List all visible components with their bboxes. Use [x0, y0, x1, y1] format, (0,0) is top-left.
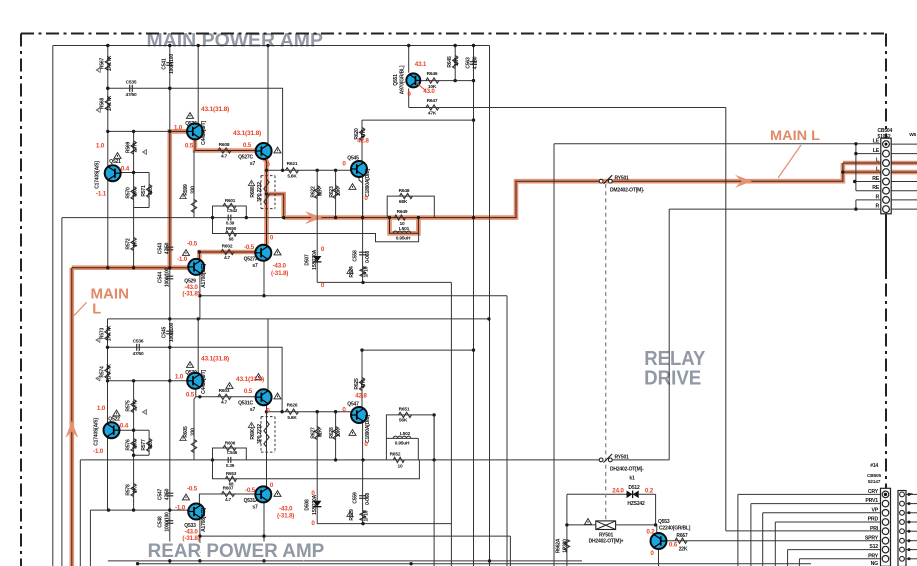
svg-text:DM2402-OT[M]-: DM2402-OT[M]- — [610, 188, 645, 194]
svg-text:R569: R569 — [125, 142, 131, 154]
svg-text:VP: VP — [871, 507, 878, 513]
svg-text:1P330: 1P330 — [563, 539, 569, 553]
Q521 base wire — [121, 172, 149, 174]
svg-text:C558: C558 — [353, 250, 359, 262]
svg-text:1P10: 1P10 — [363, 510, 369, 521]
protect vertical x=726 — [725, 108, 727, 531]
svg-text:R622: R622 — [310, 186, 316, 198]
rear signal line y=460 — [80, 459, 669, 461]
svg-text:-43.0: -43.0 — [279, 506, 293, 513]
svg-text:5.6K: 5.6K — [287, 415, 297, 421]
resistor R574 — [105, 366, 110, 379]
resistor R578 — [131, 484, 136, 497]
svg-text:22K: 22K — [679, 547, 688, 553]
connector CB505 pins — [882, 491, 889, 498]
left rail 1 — [52, 46, 54, 566]
transistor Q529 — [188, 259, 204, 275]
CB504 right stubs — [891, 144, 917, 209]
transistor Q521 — [105, 165, 121, 181]
svg-text:C548: C548 — [157, 516, 163, 528]
bus y=282 — [317, 281, 451, 283]
svg-text:D508: D508 — [305, 499, 311, 511]
svg-text:2.7K: 2.7K — [133, 142, 139, 152]
resistor R648 — [400, 194, 413, 199]
transistor Q531A — [255, 486, 271, 502]
vertical wire x=108 rear — [107, 319, 109, 510]
diode D512 HZS242 — [627, 491, 633, 499]
svg-text:-0.4: -0.4 — [118, 423, 129, 430]
svg-text:1K: 1K — [133, 486, 139, 493]
svg-text:-0.5: -0.5 — [187, 486, 198, 493]
highlighted MAIN L trace (orange bands) — [72, 131, 189, 566]
transistor Q522 — [104, 422, 120, 438]
svg-text:R649: R649 — [397, 209, 408, 215]
svg-text:R628: R628 — [329, 427, 335, 439]
R647 loop top R648 — [387, 196, 434, 218]
Q533 base path — [199, 494, 255, 503]
svg-text:Q531A: Q531A — [244, 498, 259, 504]
svg-text:R602: R602 — [222, 244, 233, 250]
Q527A emitter wire — [263, 261, 265, 296]
svg-text:R651: R651 — [399, 407, 410, 413]
svg-text:0.39: 0.39 — [226, 463, 235, 468]
C536 row — [108, 347, 283, 411]
left rail 2 — [61, 218, 63, 566]
page border dash-dot top — [21, 33, 886, 35]
CB505 PRD wire — [775, 522, 880, 566]
svg-text:D512: D512 — [628, 485, 640, 491]
capacitor C543 — [166, 246, 173, 248]
svg-text:1000/100: 1000/100 — [165, 267, 171, 287]
svg-text:C1890A[D/E]: C1890A[D/E] — [365, 415, 371, 443]
vertical wire x=170 — [169, 46, 171, 564]
svg-text:-0.5: -0.5 — [244, 244, 255, 251]
relay actuation dashed line — [605, 184, 607, 521]
svg-text:R575: R575 — [125, 400, 131, 412]
Q545 emitter chain — [359, 177, 363, 218]
resistor R650 — [226, 231, 237, 236]
resistor R571 — [147, 185, 152, 198]
svg-text:-1.0: -1.0 — [177, 256, 188, 263]
svg-text:C559: C559 — [353, 492, 359, 504]
svg-text:2.7K: 2.7K — [133, 401, 139, 411]
capacitor C536 — [136, 344, 138, 351]
svg-text:RY501: RY501 — [615, 454, 630, 460]
R646 row wire — [421, 80, 474, 82]
svg-text:HZS242: HZS242 — [627, 501, 645, 507]
Q527C collector wire — [267, 46, 269, 144]
Q551 leads — [408, 46, 410, 108]
connector CB504 pins — [883, 141, 890, 148]
svg-text:C542: C542 — [227, 208, 238, 213]
transistor Q551 — [406, 73, 420, 87]
Q553 collector stub — [656, 525, 658, 533]
transistor Q530 — [187, 373, 203, 389]
svg-text:-1.1: -1.1 — [96, 191, 107, 198]
svg-text:R605: R605 — [183, 426, 189, 438]
svg-text:PRV1: PRV1 — [865, 498, 878, 504]
svg-text:5.6K: 5.6K — [287, 174, 297, 180]
left rail x=80 — [79, 460, 81, 566]
svg-text:A970[GR/BL]: A970[GR/BL] — [399, 65, 405, 94]
resistor R569 — [131, 141, 136, 154]
svg-text:R576: R576 — [125, 439, 131, 451]
bottom bus 2 — [138, 563, 811, 565]
relay coil row — [567, 524, 656, 526]
svg-text:A1708[S/T]: A1708[S/T] — [201, 264, 207, 288]
svg-text:24.0: 24.0 — [612, 488, 624, 495]
wire C535 row — [108, 88, 283, 170]
rail x=434 — [433, 415, 435, 566]
orange flow arrow near relay — [735, 175, 752, 188]
resistor R603 — [218, 394, 231, 399]
svg-text:0.5: 0.5 — [185, 143, 194, 150]
CB504 R pins wires — [669, 200, 881, 209]
inductor L501 — [393, 231, 411, 233]
svg-text:(-31.8): (-31.8) — [277, 513, 294, 520]
connector CB505 mate body — [898, 491, 906, 566]
CB505 PRI wire — [726, 530, 881, 532]
CB505 PRV1 wire — [751, 504, 881, 566]
Q547 collector chain — [361, 350, 363, 407]
resistor R653 — [226, 476, 237, 481]
svg-text:42.8: 42.8 — [355, 393, 367, 400]
svg-text:1.0: 1.0 — [175, 374, 184, 381]
Q522 base wire — [120, 429, 150, 431]
svg-text:s7: s7 — [250, 161, 256, 167]
transistor Q533 — [188, 504, 204, 520]
resistor R568 — [105, 97, 110, 110]
C558 R624 vertical — [362, 177, 364, 282]
bus y=523.6 — [317, 523, 451, 525]
svg-text:s7: s7 — [250, 407, 256, 413]
R667 base line to SPRY — [667, 540, 882, 542]
svg-text:C544: C544 — [157, 272, 163, 284]
svg-text:R667: R667 — [676, 533, 688, 539]
svg-text:SPRY: SPRY — [865, 535, 879, 541]
svg-text:C1740S[A/S]: C1740S[A/S] — [93, 418, 99, 446]
resistor R690 (fusible) — [261, 417, 275, 453]
svg-text:Q526: Q526 — [185, 121, 197, 127]
svg-text:1SS270A: 1SS270A — [312, 249, 318, 270]
Q531C collector wire — [267, 319, 269, 389]
svg-text:10K: 10K — [336, 187, 342, 196]
diode D507 — [313, 256, 321, 262]
svg-text:10: 10 — [398, 463, 403, 469]
svg-text:820: 820 — [148, 187, 154, 195]
R576 R577 block wires — [134, 381, 150, 510]
rail x=507 — [506, 296, 508, 566]
svg-text:W5: W5 — [909, 132, 916, 138]
svg-text:1.0: 1.0 — [174, 125, 183, 132]
svg-text:C2240[GR/BL]: C2240[GR/BL] — [659, 526, 691, 532]
resistor R607 — [222, 491, 235, 496]
svg-text:43.1(31.8): 43.1(31.8) — [201, 356, 229, 363]
svg-text:4.7: 4.7 — [221, 400, 228, 406]
svg-text:Q527C: Q527C — [238, 155, 253, 161]
relay coil top wire — [567, 493, 656, 495]
svg-text:s7: s7 — [252, 263, 258, 269]
svg-text:10K: 10K — [428, 84, 437, 90]
Q533 emitter wire — [199, 520, 201, 561]
relay coil left vertical — [566, 494, 568, 566]
svg-text:MAIN L: MAIN L — [770, 127, 820, 143]
svg-text:0.5: 0.5 — [244, 388, 253, 395]
transistor Q547 — [351, 407, 367, 423]
R651 loop outline — [386, 415, 434, 460]
svg-text:3P0.2232: 3P0.2232 — [257, 424, 263, 444]
svg-text:PRD: PRD — [868, 517, 879, 523]
resistor R608 — [218, 148, 231, 153]
main top supply rail — [53, 45, 490, 47]
resistor R626 — [286, 409, 299, 414]
svg-text:DRIVE: DRIVE — [644, 368, 701, 390]
svg-text:MAIN: MAIN — [91, 287, 130, 303]
svg-text:-1.0: -1.0 — [175, 505, 186, 512]
main bottom bus y=218 — [62, 217, 284, 219]
svg-text:1SS270A: 1SS270A — [312, 494, 318, 515]
svg-text:R572: R572 — [125, 238, 131, 250]
svg-text:0.2: 0.2 — [646, 529, 655, 536]
resistor R652 — [393, 457, 404, 462]
R647 protect line — [409, 107, 726, 109]
svg-text:R625: R625 — [354, 378, 360, 390]
svg-text:R645: R645 — [447, 56, 453, 68]
resistor R651 — [399, 412, 412, 417]
svg-text:C541: C541 — [162, 58, 168, 70]
resistor R667 — [675, 538, 687, 543]
svg-text:4.7/50: 4.7/50 — [473, 56, 479, 69]
Q531C emitter vertical — [266, 405, 268, 486]
svg-text:LE: LE — [873, 148, 880, 154]
svg-text:3P0.2232: 3P0.2232 — [257, 182, 263, 202]
resistor R570 — [131, 187, 136, 200]
svg-text:82K: 82K — [318, 428, 324, 437]
Q530 base row — [108, 380, 188, 382]
svg-text:k1: k1 — [629, 476, 635, 482]
svg-text:4.7: 4.7 — [224, 255, 231, 261]
svg-text:10K: 10K — [336, 428, 342, 437]
svg-text:Q531C: Q531C — [238, 401, 253, 407]
svg-text:56K: 56K — [399, 418, 408, 424]
svg-text:**: ** — [909, 492, 913, 497]
orange flow arrow on main trace — [305, 211, 322, 224]
Q531A emitter wire — [263, 503, 265, 561]
svg-text:43.1(31.8): 43.1(31.8) — [233, 130, 261, 137]
resistor R629 — [360, 511, 365, 521]
svg-text:R: R — [875, 204, 879, 210]
svg-text:43.1: 43.1 — [415, 61, 427, 68]
transistor Q545 — [351, 161, 367, 177]
x=90 rail — [89, 510, 91, 566]
resistor R575 — [131, 400, 136, 413]
resistor R605 — [191, 440, 196, 453]
svg-text:51052: 51052 — [878, 134, 891, 140]
svg-text:L501: L501 — [399, 226, 410, 232]
resistor R606 / capacitor C546 block — [213, 448, 247, 460]
capacitor C544 — [166, 275, 173, 277]
relay coil RY501 — [596, 521, 616, 530]
svg-text:-43.0: -43.0 — [273, 263, 287, 270]
svg-text:(-31.8): (-31.8) — [182, 291, 199, 298]
svg-text:1P4.7K: 1P4.7K — [107, 55, 113, 71]
relay coil right vertical — [655, 494, 657, 525]
svg-text:R623: R623 — [329, 186, 335, 198]
transistor Q553 — [651, 533, 667, 549]
capacitor C563 — [470, 61, 477, 63]
svg-text:68: 68 — [229, 237, 234, 242]
C559 R629 vertical — [362, 423, 364, 524]
svg-text:47K: 47K — [361, 379, 367, 388]
resistor R567 — [105, 57, 110, 70]
svg-text:NG: NG — [871, 561, 879, 566]
svg-text:43.1(31.8): 43.1(31.8) — [201, 106, 229, 113]
resistor R576 — [131, 439, 136, 452]
svg-text:C535: C535 — [126, 80, 137, 86]
svg-text:C4488[S/T]: C4488[S/T] — [201, 121, 207, 145]
svg-text:PRI: PRI — [870, 526, 879, 532]
svg-text:47/50: 47/50 — [132, 351, 144, 357]
diode D508 — [313, 501, 321, 507]
svg-text:(-31.8): (-31.8) — [271, 270, 288, 277]
svg-text:0-068: 0-068 — [365, 493, 371, 505]
wire junction dots — [106, 44, 858, 566]
svg-text:43.1(31.8): 43.1(31.8) — [236, 376, 264, 383]
transistor Q527C — [256, 143, 272, 159]
svg-text:RY501: RY501 — [615, 176, 630, 182]
capacitor C541 — [166, 62, 173, 64]
svg-text:1P10: 1P10 — [363, 266, 369, 277]
vertical wire x=108 main — [107, 46, 109, 268]
Q545 collector chain — [361, 120, 363, 161]
svg-text:1.0: 1.0 — [96, 143, 105, 150]
resistor R646 — [426, 78, 439, 83]
R627 R628 verticals — [317, 412, 335, 524]
Q553 emitter wire — [658, 549, 660, 566]
x=510 stub — [509, 536, 511, 566]
svg-text:R570: R570 — [125, 187, 131, 199]
svg-text:C543: C543 — [157, 243, 163, 255]
transistor Q526 — [187, 123, 203, 139]
relay contact RY501 (main) — [599, 179, 603, 183]
svg-text:C545: C545 — [162, 327, 168, 339]
svg-text:52147: 52147 — [868, 479, 881, 485]
svg-text:0.95uH: 0.95uH — [395, 441, 410, 447]
svg-text:0.95uH: 0.95uH — [396, 236, 411, 242]
svg-text:4.7: 4.7 — [225, 497, 232, 503]
svg-text:Q547: Q547 — [347, 402, 359, 408]
svg-text:0.5: 0.5 — [243, 142, 252, 149]
feedback wire rear — [213, 460, 420, 479]
svg-text:390: 390 — [133, 441, 139, 449]
svg-text:0.2: 0.2 — [645, 488, 654, 495]
wire y=120 — [362, 119, 474, 121]
MAIN L trace black core wires — [72, 131, 189, 566]
svg-text:1000/100: 1000/100 — [169, 322, 175, 342]
svg-text:R571: R571 — [141, 185, 147, 197]
svg-text:S12: S12 — [869, 544, 878, 550]
svg-text:R688: R688 — [250, 186, 256, 198]
svg-text:R621: R621 — [287, 161, 298, 167]
svg-text:C563: C563 — [465, 57, 471, 69]
svg-text:47/50: 47/50 — [165, 488, 171, 500]
R pins drop x=669 — [668, 209, 670, 460]
resistor R577 — [147, 439, 152, 452]
ground wire to CB504 — [554, 143, 881, 145]
svg-text:R607: R607 — [223, 486, 234, 492]
svg-text:R653: R653 — [226, 471, 237, 476]
Q530 emitter row — [196, 389, 256, 397]
svg-text:R650: R650 — [226, 226, 237, 231]
resistor R572 — [131, 238, 136, 251]
svg-text:4.7: 4.7 — [221, 154, 228, 160]
svg-text:R606: R606 — [225, 441, 236, 446]
svg-text:REAR POWER AMP: REAR POWER AMP — [148, 540, 325, 562]
page border dash-dot left — [20, 34, 22, 566]
CB505 VP wire — [763, 513, 881, 566]
svg-text:0.39: 0.39 — [226, 221, 235, 226]
svg-text:C4488[S/T]: C4488[S/T] — [201, 370, 207, 394]
svg-text:R603: R603 — [219, 388, 230, 394]
L502 loop outline — [386, 438, 418, 460]
CB504 pin2 jumper wires — [855, 144, 881, 191]
inductor L502 — [393, 436, 411, 438]
ground vertical x=554 — [553, 144, 555, 566]
svg-text:DH2402-OT[M]-: DH2402-OT[M]- — [610, 467, 644, 473]
svg-text:0.5: 0.5 — [186, 392, 195, 399]
resistor R645 — [453, 56, 458, 69]
svg-text:L502: L502 — [400, 431, 411, 437]
svg-text:A1708[S/T]: A1708[S/T] — [201, 508, 207, 532]
resistor R621 — [286, 168, 299, 173]
svg-text:DH2402-OT[M]+: DH2402-OT[M]+ — [589, 539, 624, 545]
rear emitter bus y=536 — [200, 535, 511, 537]
svg-text:C546: C546 — [227, 450, 238, 455]
svg-text:1P4.7K: 1P4.7K — [107, 325, 113, 341]
R621 row wire — [267, 169, 351, 171]
capacitor C545 — [166, 330, 173, 332]
relay contact RY501 (rear) — [599, 458, 603, 462]
connector CB504 body — [881, 138, 891, 214]
Q526 collector wire — [197, 46, 199, 124]
svg-text:82K: 82K — [318, 187, 324, 196]
resistor R647 — [426, 105, 439, 110]
orange flow arrow up on left trace — [65, 421, 78, 438]
R626 row wire — [267, 411, 351, 413]
svg-text:Q553: Q553 — [658, 519, 670, 525]
svg-text:-1.0: -1.0 — [93, 448, 104, 455]
rear top rail — [108, 318, 490, 320]
svg-text:#14: #14 — [870, 463, 878, 469]
Q529 emitter wire — [199, 275, 201, 319]
svg-text:CRY: CRY — [868, 489, 879, 495]
resistor R573 — [105, 327, 110, 340]
R601 block outline — [213, 206, 247, 218]
capacitor C558 — [359, 251, 366, 253]
capacitor C548 — [166, 520, 173, 522]
resistor R623 — [333, 186, 338, 199]
svg-text:1P4.7K: 1P4.7K — [107, 364, 113, 380]
feedback wire main — [213, 218, 419, 242]
svg-text:1.0: 1.0 — [97, 405, 106, 412]
svg-text:L: L — [92, 302, 101, 318]
svg-text:C536: C536 — [133, 339, 144, 345]
svg-text:R646: R646 — [427, 71, 438, 77]
svg-text:-0.4: -0.4 — [119, 166, 130, 173]
svg-text:-0.5: -0.5 — [245, 487, 256, 494]
svg-text:1000/100: 1000/100 — [165, 512, 171, 532]
R599 branch wire — [193, 151, 195, 218]
